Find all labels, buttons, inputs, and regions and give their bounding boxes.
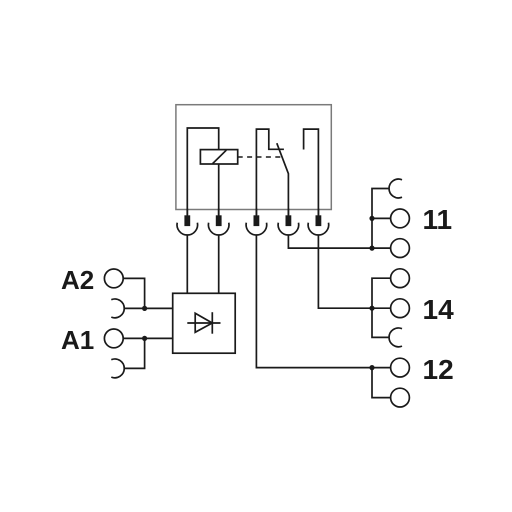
svg-text:12: 12 xyxy=(423,354,454,385)
svg-text:14: 14 xyxy=(423,294,455,325)
svg-text:A2: A2 xyxy=(61,265,94,295)
svg-text:11: 11 xyxy=(423,204,453,235)
svg-text:A1: A1 xyxy=(61,325,94,355)
